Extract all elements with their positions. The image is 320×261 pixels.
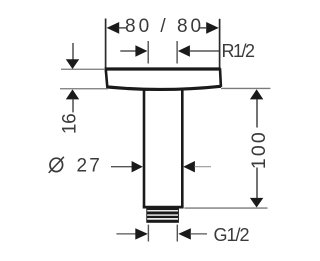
svg-text:80 / 80: 80 / 80 <box>125 16 204 37</box>
dim 100 top extension line <box>221 87 270 89</box>
dim 100 down arrow <box>250 198 263 208</box>
dim G1/2 label <box>214 225 250 245</box>
dim 16 bottom extension line <box>60 88 108 90</box>
svg-text:100: 100 <box>248 130 270 169</box>
dim G1/2 left extension line <box>147 225 149 242</box>
dim 16 top arrow <box>66 43 79 69</box>
threaded end G1/2 <box>146 208 179 222</box>
dim 80/80 label <box>125 16 204 37</box>
pipe bottom edge <box>143 206 184 209</box>
dim 100 up arrow <box>250 89 263 99</box>
dim R1/2 left extension line <box>147 41 149 64</box>
dim R1/2 right arrow <box>178 45 220 57</box>
dim 16 top extension line <box>61 68 104 70</box>
dim R1/2 label <box>222 41 256 61</box>
svg-text:16: 16 <box>60 114 81 135</box>
dim 80/80 left arrow <box>107 22 127 34</box>
dim R1/2 left arrow <box>120 45 147 57</box>
svg-text:R1/2: R1/2 <box>222 41 256 61</box>
flange bottom dished arc <box>106 86 221 89</box>
pipe left wall <box>143 90 146 207</box>
flange top edge <box>105 67 221 70</box>
dim 100 line lower segment <box>256 168 258 206</box>
flange right edge <box>219 68 222 87</box>
svg-text:27: 27 <box>77 156 103 177</box>
dim 16 label <box>60 114 81 135</box>
dim 100 bottom extension line <box>184 207 267 209</box>
svg-text:G1/2: G1/2 <box>214 225 250 245</box>
dim G1/2 left arrow <box>116 228 147 239</box>
dim 100 line upper segment <box>256 92 258 128</box>
dim 100 label <box>248 130 270 169</box>
dim diameter 27 label <box>49 156 102 177</box>
dim R1/2 right extension line <box>176 41 178 64</box>
dim 80/80 left extension line <box>105 19 107 69</box>
dim G1/2 right extension line <box>176 225 178 242</box>
pipe right wall <box>181 90 184 207</box>
dim diameter 27 left arrow <box>111 161 143 172</box>
dim 16 bottom arrow <box>66 89 79 112</box>
dim diameter 27 right arrow <box>183 161 211 172</box>
flange left edge <box>106 69 108 88</box>
dim 80/80 right extension line <box>219 19 221 68</box>
dim 80/80 right arrow <box>199 22 219 34</box>
dim G1/2 right arrow <box>178 228 207 239</box>
